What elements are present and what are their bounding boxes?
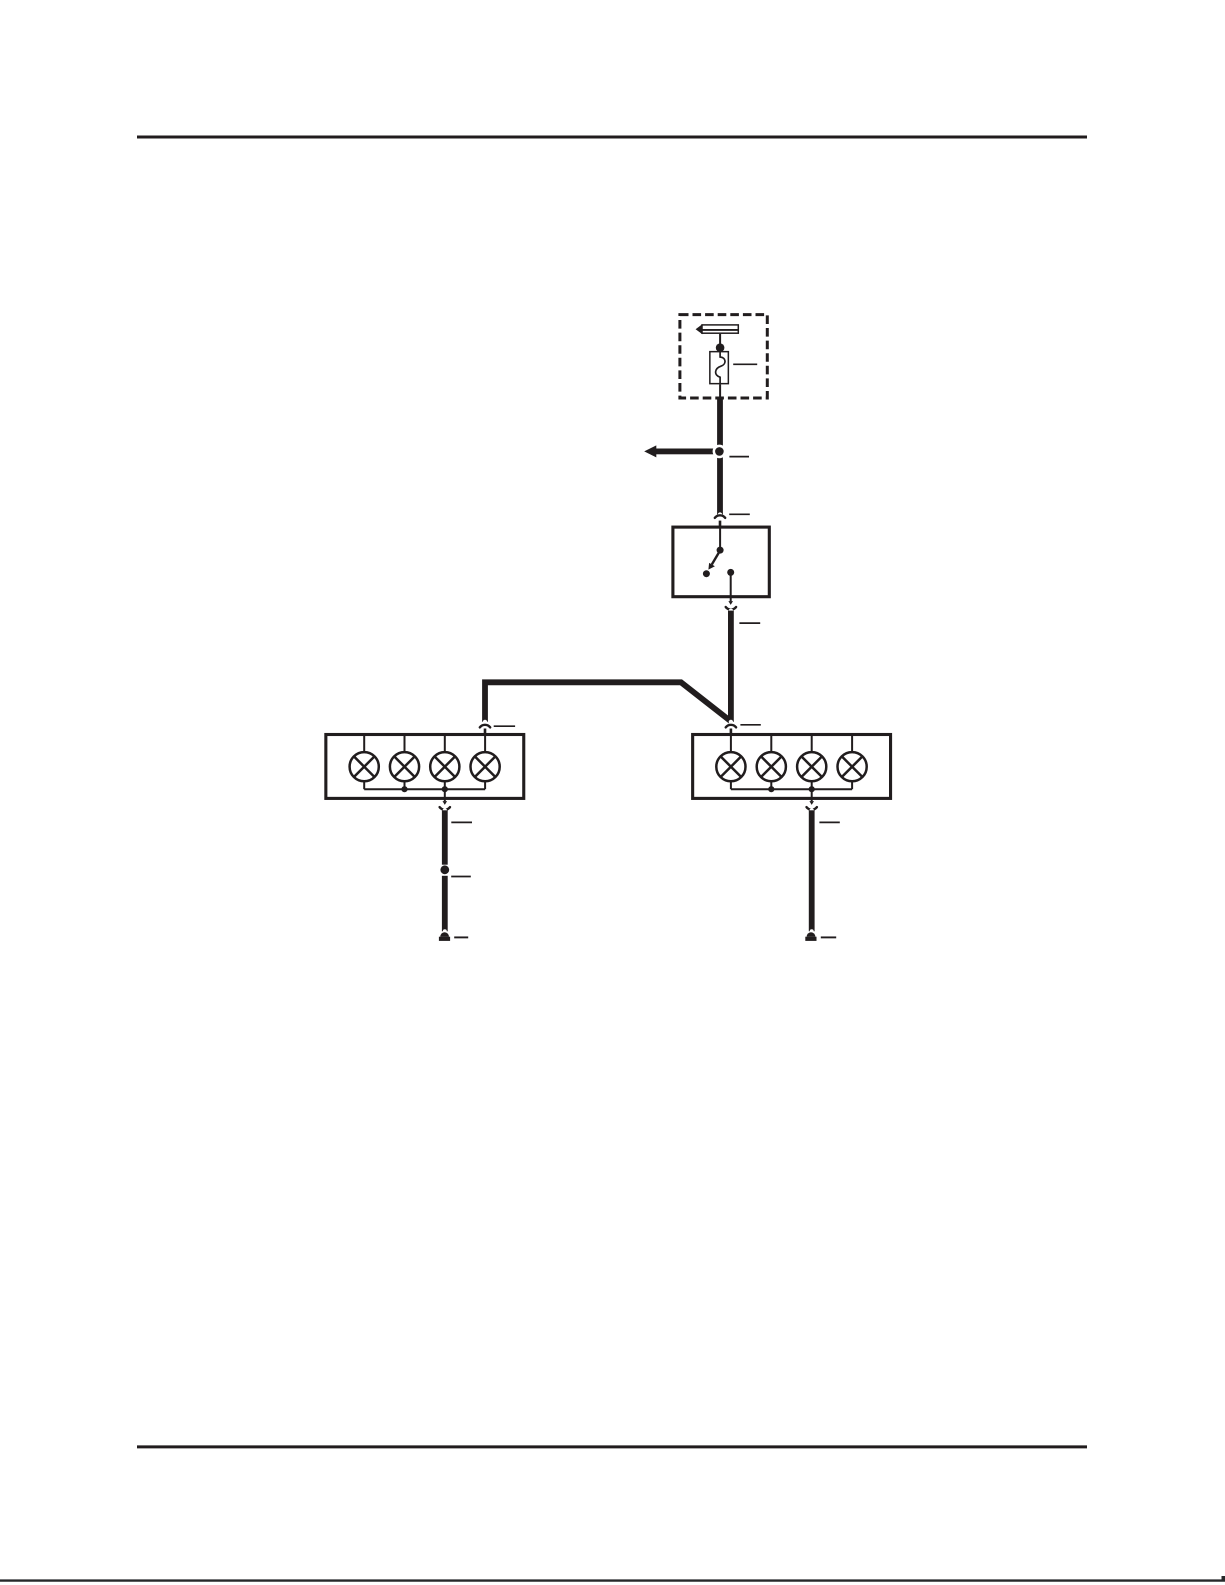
switch right contact dot <box>727 569 734 576</box>
lamp R2 <box>757 752 786 781</box>
wire: left ground wire upper segment <box>442 810 448 864</box>
pin arrowhead into connector <box>443 801 448 805</box>
lamp R1 <box>716 752 745 781</box>
lamp R3 <box>797 752 826 781</box>
header rule <box>137 136 1087 139</box>
callout line: inline connector <box>451 876 471 878</box>
ground point right <box>805 932 816 941</box>
connector: socket below light switch <box>726 607 736 610</box>
lamp L4 <box>471 752 500 781</box>
fuse body rectangle <box>710 352 729 384</box>
callout line: connector below switch <box>739 622 760 624</box>
node: distribution junction with halo <box>713 445 727 459</box>
switch left contact dot <box>703 570 710 577</box>
callout line: connector above switch <box>729 513 750 515</box>
wire: right ground wire <box>809 810 815 931</box>
pin arrowhead into lower connector <box>728 601 733 605</box>
bus junction dots <box>768 786 774 792</box>
wire: branch to left lamp cluster (horizontal + diagonal) <box>485 682 731 722</box>
ground point left <box>439 932 450 941</box>
right cluster ground bus <box>731 788 852 790</box>
pin: switch input terminal <box>719 521 722 528</box>
connector: socket above left lamp cluster <box>483 720 487 724</box>
connector: socket on left ground wire <box>440 807 450 810</box>
wire: main supply thick wire from fuse holder down to switch connector <box>717 399 723 514</box>
power feed arrow bar (connection to other circuit) <box>696 324 739 334</box>
pin arrowhead into connector <box>809 801 814 805</box>
page bottom edge <box>0 1579 1225 1581</box>
wire: arrow bar to fuse node <box>719 334 721 348</box>
right cluster lamp feeds from top rail <box>730 734 732 752</box>
footer rule <box>137 1445 1087 1448</box>
lamp L3 <box>430 752 459 781</box>
right lamp cluster box <box>693 735 891 799</box>
lamp R4 <box>838 752 867 781</box>
connector: socket above light switch <box>718 512 723 517</box>
callout line: right ground point <box>821 936 836 938</box>
callout line: junction wire label <box>729 456 749 458</box>
left cluster ground bus <box>364 788 485 790</box>
node: inline connector dot on left ground wire <box>440 865 449 874</box>
wire: left ground wire lower segment <box>442 876 448 932</box>
left cluster ground lead through box edge <box>444 789 446 801</box>
right cluster lamp return stubs <box>730 781 732 789</box>
switch internal output lead through box edge <box>730 573 732 601</box>
node: fuse supply junction dot <box>716 343 725 352</box>
fuse element S-curve <box>716 352 725 384</box>
right cluster ground lead through box edge <box>811 789 813 801</box>
wire end notch left <box>443 929 447 933</box>
callout line: right ground wire label <box>819 821 839 823</box>
fuse holder dashed box <box>680 315 767 398</box>
switch lever with arrowhead <box>712 551 720 565</box>
callout line: left cluster top connector <box>494 725 515 727</box>
light switch box <box>673 527 769 597</box>
lamp L1 <box>350 752 379 781</box>
connector: socket on right ground wire <box>807 807 817 810</box>
lamp L2 <box>390 752 419 781</box>
left cluster lamp return stubs <box>363 781 365 789</box>
wire: branch arrow to other consumers <box>644 445 716 457</box>
callout line: left ground wire label <box>451 821 472 823</box>
wire: fuse pin to holder edge <box>719 384 721 399</box>
callout line: fuse designation <box>733 363 757 365</box>
callout line: right cluster top connector <box>740 724 760 726</box>
pin into right cluster <box>730 729 733 737</box>
bus junction dots <box>401 786 407 792</box>
switch internal input lead <box>719 528 721 550</box>
left lamp cluster box <box>326 735 524 799</box>
wire end notch right <box>810 929 814 933</box>
pin into left cluster <box>484 729 487 737</box>
wire: switch output down to right lamp cluster <box>728 611 734 722</box>
left cluster lamp feeds from top rail <box>363 734 365 752</box>
callout line: left ground point <box>454 936 468 938</box>
switch pivot contact dot <box>717 547 724 554</box>
connector: socket above right lamp cluster <box>729 720 733 724</box>
